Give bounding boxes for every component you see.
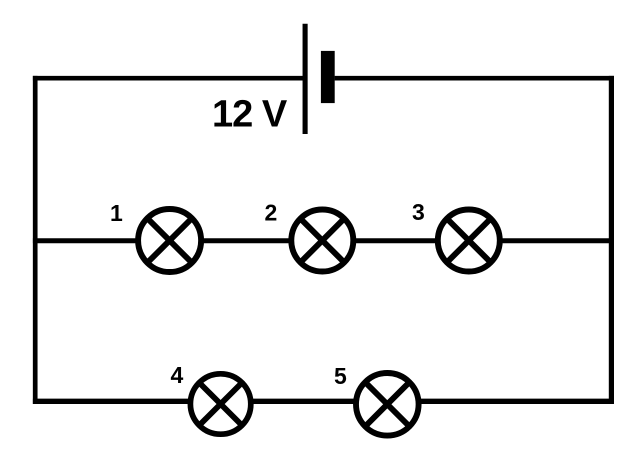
svg-text:1: 1 (110, 200, 123, 226)
lamp 5 (circle-X) (356, 373, 419, 436)
battery 12V: long positive plate (303, 24, 308, 134)
lamp 2 (circle-X) (291, 210, 353, 272)
wire: left edge (top rail to bottom rail) (33, 76, 38, 404)
svg-text:5: 5 (334, 363, 347, 389)
svg-text:2: 2 (265, 200, 278, 226)
svg-text:12 V: 12 V (212, 93, 288, 135)
wire: top rail, left segment to battery positive plate (33, 76, 306, 81)
svg-text:3: 3 (412, 199, 425, 225)
wire: bottom rail (lamps 4-5) (33, 399, 614, 404)
wire: right edge (top rail to bottom rail) (609, 76, 614, 404)
lamp 1 (circle-X) (138, 209, 201, 272)
wire: middle branch (lamps 1-3) (33, 238, 614, 243)
lamp 3 (circle-X) (438, 210, 500, 272)
svg-text:4: 4 (171, 362, 184, 388)
battery 12V: short thick negative plate (321, 51, 335, 103)
lamp 4 (circle-X) (190, 374, 250, 434)
wire: top rail, right segment from battery negative plate (335, 76, 614, 81)
